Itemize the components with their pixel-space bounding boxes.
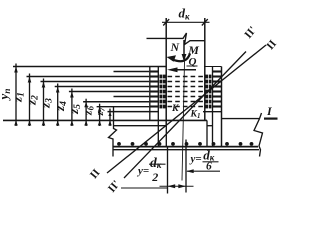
bottom dim arrows (168, 184, 176, 188)
tick right (202, 19, 208, 25)
mesh line 3 (41, 81, 150, 83)
mesh line 7 (83, 101, 149, 103)
foundation top / dimension baseline (3, 119, 207, 121)
column face left extension below (165, 126, 167, 147)
socket floor left (114, 125, 167, 127)
shelf for y=dk/2 (121, 187, 168, 189)
mesh line 2 (27, 76, 150, 78)
column left face (165, 18, 167, 126)
bottom dim line (160, 185, 194, 187)
dimension d_k line (162, 21, 210, 23)
fraction bar dk/2 (149, 163, 166, 165)
foundation shoulder top right (222, 118, 260, 120)
column axis (182, 62, 185, 181)
left cut edge with break (109, 107, 117, 157)
svg-text:К1: К1 (190, 110, 201, 121)
mesh thick segments left of column (150, 72, 158, 107)
mesh segments right wall zone (213, 72, 222, 107)
svg-text:2: 2 (151, 170, 158, 184)
mesh line 4 (55, 86, 150, 88)
anchor squares right strip (205, 75, 211, 109)
sleeve top line right (204, 66, 222, 68)
mesh line 6 (114, 96, 150, 98)
sleeve inner wall right (212, 67, 214, 147)
leader for y=dk/6 (187, 170, 220, 172)
anchor squares left strip (159, 75, 166, 109)
svg-text:y=: y= (136, 165, 149, 177)
mesh line 5 (69, 91, 149, 93)
sleeve top line left (13, 66, 166, 68)
dim vertical z5 (85, 99, 87, 126)
fraction bar dk/6 (203, 161, 219, 163)
force Q arrow (172, 69, 196, 71)
svg-text:y=: y= (189, 153, 202, 165)
mesh line 8 stub (97, 106, 150, 108)
svg-text:z7: z7 (95, 107, 107, 116)
dim vertical y_p (15, 64, 17, 127)
rebar dots (117, 142, 253, 146)
bottom reinforcement line 2 (114, 149, 260, 151)
bottom dim vertical A (167, 148, 169, 194)
mesh line 1 (114, 71, 150, 73)
section line II (107, 45, 266, 173)
svg-text:N: N (170, 40, 181, 54)
force N arrow (183, 40, 185, 59)
bottom dim vertical B (185, 140, 187, 193)
column right face (204, 18, 206, 120)
socket floor right (207, 125, 213, 127)
column break symbol (147, 33, 205, 45)
moment M arc (172, 54, 190, 62)
Q underline (187, 65, 198, 67)
dim vertical z7 (109, 109, 111, 126)
section line II' (124, 52, 246, 179)
dim vertical z3 (57, 84, 59, 127)
sleeve inner wall left (157, 67, 159, 147)
dim arrowheads bottom (14, 121, 112, 126)
tick left (163, 19, 169, 25)
sleeve outer wall left (149, 67, 151, 121)
dim vertical z2 (43, 79, 45, 127)
svg-text:Q: Q (189, 56, 197, 68)
svg-text:К: К (171, 104, 179, 114)
svg-text:M: M (187, 43, 199, 57)
step at column face right (206, 120, 208, 146)
I section underline (264, 117, 278, 119)
dim vertical z4 (71, 89, 73, 127)
dim vertical z1 (29, 74, 31, 127)
right edge break (254, 113, 263, 157)
dim arrowheads top (14, 67, 111, 117)
bottom reinforcement line 1 (114, 146, 259, 148)
dim vertical z6 (99, 104, 101, 126)
sleeve outer wall right (221, 67, 223, 147)
socket bottom right (203, 111, 222, 113)
dashed mesh inside column (168, 77, 204, 107)
